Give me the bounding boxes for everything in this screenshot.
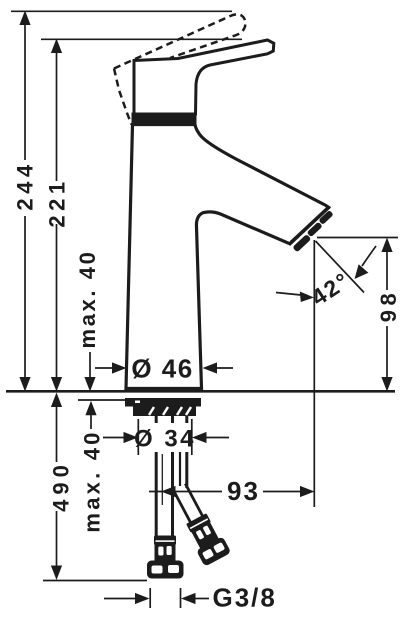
- dimension Ø34: [136, 423, 194, 452]
- faucet body and spout: [126, 125, 329, 389]
- svg-text:93: 93: [227, 476, 260, 506]
- dimension max. 40 lower (below deck): [90, 415, 92, 429]
- dimension G3/8: [104, 588, 209, 608]
- dimension Ø46: [95, 367, 233, 369]
- dimension 221: [41, 39, 242, 378]
- dimension 490: [43, 407, 147, 581]
- dimension 93: [149, 491, 301, 493]
- dimension 244: [11, 11, 232, 378]
- 42 degree reference lines: [276, 238, 398, 508]
- svg-text:Ø 34: Ø 34: [134, 426, 196, 453]
- svg-text:max. 40: max. 40: [80, 429, 105, 532]
- angled hose connector G3/8: [166, 480, 231, 567]
- svg-text:221: 221: [45, 177, 70, 227]
- dimension 98: [386, 251, 388, 377]
- lever handle and cartridge base: [134, 40, 274, 114]
- svg-text:98: 98: [376, 289, 401, 322]
- supply hoses (vertical): [156, 416, 187, 537]
- base lip: [125, 387, 204, 392]
- dimension max. 40 upper (deck thickness from above): [89, 352, 91, 378]
- washbasin deck lines: [6, 390, 395, 393]
- under-deck mounting hardware: [125, 398, 201, 407]
- svg-text:max. 40: max. 40: [75, 250, 100, 349]
- svg-text:Ø 46: Ø 46: [131, 354, 193, 384]
- svg-text:244: 244: [13, 160, 38, 210]
- svg-text:G3/8: G3/8: [213, 583, 277, 613]
- joint ring (dark band): [132, 113, 197, 125]
- aerator at spout tip: [289, 207, 337, 253]
- svg-text:490: 490: [49, 460, 74, 512]
- dashed lever raised position: [114, 14, 245, 124]
- straight hose connector G3/8: [154, 536, 176, 546]
